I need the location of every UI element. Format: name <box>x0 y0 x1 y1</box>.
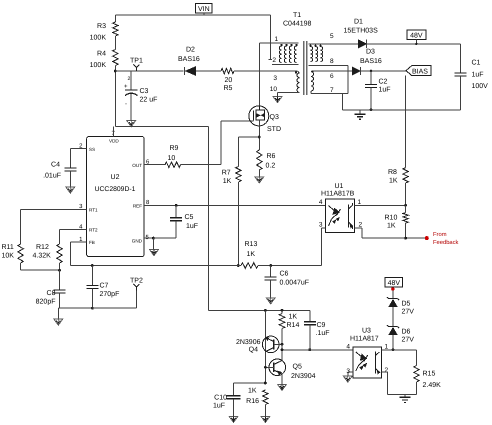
svg-text:2.49K: 2.49K <box>423 382 442 389</box>
capacitor C3 22uF polarized <box>130 71 132 90</box>
U1 phototransistor <box>347 205 349 228</box>
svg-text:1: 1 <box>275 36 279 43</box>
svg-text:1K: 1K <box>248 388 257 395</box>
svg-text:10: 10 <box>168 155 176 162</box>
svg-text:7: 7 <box>330 87 334 94</box>
net VIN top rail <box>115 14 270 16</box>
resistor R10 1K <box>405 205 407 212</box>
node Q4 base/R14 <box>281 343 284 346</box>
svg-text:1uF: 1uF <box>213 403 225 410</box>
node C5 top <box>175 204 178 207</box>
svg-text:Q5: Q5 <box>293 364 302 371</box>
T1 core <box>303 41 305 95</box>
wire TP1/D2/R5 to aux winding <box>115 70 183 72</box>
svg-text:22 uF: 22 uF <box>140 97 158 104</box>
svg-text:8: 8 <box>330 58 334 65</box>
node VDD junction R4/TP1 <box>114 70 117 73</box>
svg-text:.01uF: .01uF <box>43 173 61 180</box>
svg-text:BAS16: BAS16 <box>360 58 382 65</box>
resistor R15 2.49K <box>415 350 417 366</box>
test point TP2 <box>135 291 137 309</box>
T1 primary pin1 wire <box>259 42 298 44</box>
resistor R3 <box>114 15 116 22</box>
svg-text:0.0047uF: 0.0047uF <box>280 280 310 287</box>
capacitor C2 1uF <box>370 71 372 85</box>
resistor R4 <box>113 50 118 66</box>
svg-text:OUT: OUT <box>132 163 142 168</box>
svg-text:100V: 100V <box>472 83 489 90</box>
ground pin10 <box>273 97 282 103</box>
svg-text:1K: 1K <box>247 251 256 258</box>
resistor R13 1K <box>241 263 258 268</box>
wire pin10 to ground <box>278 92 300 94</box>
wire Q4 collector node to U3 pin 4 <box>281 344 283 360</box>
secondary ground rail <box>342 109 460 111</box>
wire FB <box>70 241 86 243</box>
svg-text:R11: R11 <box>2 244 14 251</box>
node Q5 base <box>264 366 267 369</box>
svg-text:STD: STD <box>267 126 281 133</box>
wire pin8 to pin7 <box>347 66 349 94</box>
svg-text:1uF: 1uF <box>472 72 484 79</box>
resistor R7 1K <box>238 136 259 138</box>
svg-text:1K: 1K <box>223 178 232 185</box>
svg-text:R7: R7 <box>222 170 231 177</box>
svg-text:D2: D2 <box>186 47 195 54</box>
resistor R14 1K <box>281 310 283 313</box>
ground R6 <box>255 177 264 183</box>
svg-text:1K: 1K <box>289 314 298 321</box>
capacitor C9 .1uF <box>309 310 311 321</box>
svg-text:48V: 48V <box>410 33 423 40</box>
diode D3 BAS16 <box>313 70 353 72</box>
capacitor C4 .01uF on SS <box>70 148 86 150</box>
ground secondary <box>355 113 366 115</box>
capacitor C6 0.0047uF <box>269 264 272 267</box>
T1 upper-left winding coils <box>279 46 281 63</box>
svg-text:27V: 27V <box>402 309 415 316</box>
svg-text:.1uF: .1uF <box>316 330 330 337</box>
U1 pin3 wire <box>322 227 326 229</box>
transistor Q5 2N3904 <box>269 359 286 376</box>
svg-text:4.32K: 4.32K <box>33 253 52 260</box>
svg-text:4: 4 <box>346 344 350 351</box>
T1 pin5 top rail wire <box>308 43 358 45</box>
wire D3 to BIAS <box>361 70 406 72</box>
wire REF line <box>144 204 326 206</box>
svg-text:C4: C4 <box>51 162 60 169</box>
U3 pin3 wire to ground <box>348 371 353 373</box>
svg-text:C5: C5 <box>185 214 194 221</box>
node 48V red <box>391 287 394 290</box>
wire totem rail <box>264 310 266 383</box>
From Feedback red terminal <box>425 236 429 240</box>
svg-text:100K: 100K <box>90 35 107 42</box>
svg-text:2N3904: 2N3904 <box>291 373 316 380</box>
svg-text:UCC2809D-1: UCC2809D-1 <box>95 186 136 193</box>
svg-text:10: 10 <box>270 86 278 93</box>
svg-text:From: From <box>433 232 447 238</box>
resistor R5 20 <box>221 68 234 73</box>
ground R16 <box>261 416 270 422</box>
wire GND pin to C5 <box>144 237 176 239</box>
ground left rail <box>54 319 63 325</box>
node R8/R10/U1pin1 <box>404 204 407 207</box>
svg-text:C044198: C044198 <box>283 21 312 28</box>
svg-text:D1: D1 <box>354 19 363 26</box>
svg-text:3: 3 <box>273 75 277 82</box>
svg-text:R14: R14 <box>287 322 300 329</box>
U1 LED <box>329 206 335 211</box>
node Q3 source <box>258 136 261 139</box>
U1 pin2 wire <box>355 227 362 229</box>
ground Q5 emitter <box>278 384 287 390</box>
VIN label <box>196 4 213 14</box>
svg-text:C9: C9 <box>317 322 326 329</box>
capacitor C8 820pF <box>59 270 61 290</box>
svg-text:270pF: 270pF <box>100 291 120 298</box>
svg-text:+: + <box>124 84 128 90</box>
svg-text:TP1: TP1 <box>130 58 143 65</box>
svg-text:C6: C6 <box>280 271 289 278</box>
svg-text:R6: R6 <box>267 153 276 160</box>
svg-text:-: - <box>125 102 127 108</box>
U1 pin4 wire (REF) done above; pin1 wire <box>355 204 406 206</box>
svg-text:RT2: RT2 <box>89 228 98 233</box>
svg-text:R10: R10 <box>385 215 398 222</box>
svg-text:FB: FB <box>89 240 95 245</box>
svg-text:R4: R4 <box>97 51 106 58</box>
capacitor C1 1uF 100V <box>460 44 462 73</box>
bias clamp rail <box>209 309 310 311</box>
U3 pin2 wire <box>382 371 388 373</box>
svg-text:D3: D3 <box>366 49 375 56</box>
svg-text:C2: C2 <box>379 79 388 86</box>
capacitor C7 270pF <box>91 264 94 267</box>
svg-text:1uF: 1uF <box>379 87 391 94</box>
resistor R16 1K <box>263 390 268 405</box>
svg-text:H11A817B: H11A817B <box>321 191 355 198</box>
svg-text:20: 20 <box>225 77 233 84</box>
ground U2 GND pin <box>150 250 159 256</box>
svg-text:2: 2 <box>128 76 131 82</box>
svg-text:BAS16: BAS16 <box>178 56 200 63</box>
svg-text:REF: REF <box>133 203 142 208</box>
test point TP1 <box>133 65 139 68</box>
wire D1 cathode to 48V/C1 <box>367 43 461 45</box>
svg-text:100K: 100K <box>90 62 107 69</box>
svg-text:1K: 1K <box>389 178 398 185</box>
wire VDD drop to bias rail <box>208 127 210 311</box>
svg-text:820pF: 820pF <box>36 299 56 306</box>
svg-text:4: 4 <box>319 199 323 206</box>
svg-text:H11A817: H11A817 <box>350 336 379 343</box>
BIAS feed / resistor R8 1K <box>405 76 407 168</box>
svg-text:5: 5 <box>330 33 334 40</box>
T1 primary bottom rail / pin2 <box>272 64 299 66</box>
svg-text:GND: GND <box>132 238 143 243</box>
svg-text:D5: D5 <box>402 301 411 308</box>
wire OUT / resistor R9 10 <box>144 164 165 166</box>
svg-text:R9: R9 <box>170 145 179 152</box>
node U3pin1/D6/R15 <box>392 348 395 351</box>
svg-text:SS: SS <box>89 147 95 152</box>
wire T1 pin1 to Q3 drain <box>258 43 260 106</box>
svg-text:VDD: VDD <box>109 139 119 144</box>
U3 pin1 wire <box>382 349 417 351</box>
svg-text:U3: U3 <box>362 328 371 335</box>
svg-text:Q3: Q3 <box>270 114 279 121</box>
48V label bottom <box>385 278 403 288</box>
svg-text:2: 2 <box>272 57 276 64</box>
optocoupler U1 H11A817B <box>326 199 355 233</box>
resistor R6 0.2 <box>258 126 260 150</box>
node R7 to FB line <box>237 264 240 267</box>
svg-text:R5: R5 <box>224 85 233 92</box>
svg-text:R13: R13 <box>245 241 258 248</box>
zener D6 27V <box>389 326 398 328</box>
svg-text:R3: R3 <box>97 23 106 30</box>
diode D1 15ETH03S <box>358 40 366 48</box>
svg-text:48V: 48V <box>388 280 401 287</box>
U3 phototransistor <box>374 352 376 374</box>
svg-text:RT1: RT1 <box>89 208 98 213</box>
svg-text:Feedback: Feedback <box>433 239 459 246</box>
IC U2 UCC2809D-1 <box>87 137 144 257</box>
svg-text:0.2: 0.2 <box>266 163 276 170</box>
T1 upper-right winding coils pins 5/8 <box>311 47 313 62</box>
BIAS tag <box>406 66 431 76</box>
node C2 top <box>370 70 373 73</box>
wire Q3 gate <box>221 120 254 122</box>
svg-text:C1: C1 <box>472 60 481 67</box>
svg-text:C7: C7 <box>100 283 109 290</box>
svg-text:U2: U2 <box>111 174 120 181</box>
svg-text:T1: T1 <box>293 12 301 19</box>
ground C10 <box>229 416 238 422</box>
svg-text:10K: 10K <box>2 253 15 260</box>
capacitor C10 1uF <box>234 382 266 384</box>
ground rail left <box>58 307 136 309</box>
wire R13 to U1 pin3 <box>321 228 323 266</box>
zener D5 27V <box>389 298 398 300</box>
svg-text:15ETH03S: 15ETH03S <box>344 28 379 35</box>
wire VDD rail <box>115 126 208 128</box>
U3 LED <box>356 352 362 357</box>
ground C4 <box>66 187 75 193</box>
svg-text:C3: C3 <box>140 88 149 95</box>
svg-text:2N3906: 2N3906 <box>236 339 261 346</box>
ground U3 pin3 <box>343 376 352 382</box>
wire RT1 / resistor R11 10K <box>21 208 87 210</box>
svg-text:C10: C10 <box>214 395 227 402</box>
ground C6 <box>266 298 275 304</box>
svg-text:1K: 1K <box>387 223 396 230</box>
wire pin7 <box>310 91 312 93</box>
svg-text:6: 6 <box>330 73 334 80</box>
capacitor C5 1uF <box>175 205 177 218</box>
svg-text:C8: C8 <box>47 290 56 297</box>
svg-text:1uF: 1uF <box>186 223 198 230</box>
svg-text:27V: 27V <box>402 337 415 344</box>
optocoupler U3 H11A817 <box>353 347 382 378</box>
T1 pin8 bottom rail wire <box>308 65 348 67</box>
svg-text:R16: R16 <box>246 398 259 405</box>
svg-text:D6: D6 <box>402 329 411 336</box>
48V label top <box>407 30 426 39</box>
svg-text:U1: U1 <box>335 183 344 190</box>
svg-text:VIN: VIN <box>198 6 210 13</box>
svg-text:Q4: Q4 <box>249 347 258 354</box>
wire RT2 / resistor R12 4.32K <box>60 228 87 230</box>
svg-text:BIAS: BIAS <box>412 69 428 76</box>
T1 lower-right winding pins 6/7 <box>311 72 314 92</box>
svg-text:R12: R12 <box>36 244 49 251</box>
diode D2 BAS16 <box>184 67 186 75</box>
svg-text:TP2: TP2 <box>130 278 143 285</box>
svg-text:R8: R8 <box>388 169 397 176</box>
ground R15 rail <box>400 396 411 398</box>
svg-text:R15: R15 <box>423 371 436 378</box>
T1 lower-left aux winding pins 3/10 <box>297 73 300 93</box>
